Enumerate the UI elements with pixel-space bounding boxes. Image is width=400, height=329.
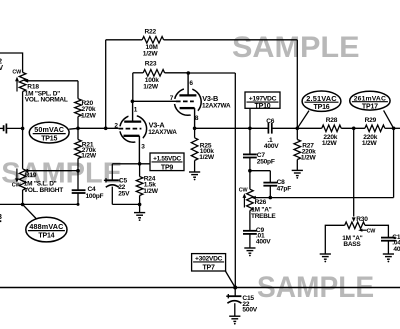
node junction R27/TP16 bbox=[296, 127, 300, 131]
V3-A plate bbox=[124, 120, 141, 122]
svg-text:TP17: TP17 bbox=[362, 104, 378, 111]
svg-text:100pF: 100pF bbox=[86, 193, 104, 200]
node junction TP9 bbox=[138, 162, 142, 166]
svg-text:C6: C6 bbox=[266, 118, 275, 125]
svg-text:R23: R23 bbox=[145, 60, 157, 67]
wire bass left to ground bbox=[325, 225, 344, 254]
svg-text:1/2W: 1/2W bbox=[143, 83, 159, 90]
svg-text:400V: 400V bbox=[264, 143, 279, 150]
wire to C8 bbox=[250, 170, 270, 172]
wire treble out up to output node bbox=[393, 128, 395, 197]
wire R21 to C4 bbox=[77, 159, 79, 171]
resistor R23 100k bbox=[132, 73, 134, 102]
R18 CW arrow bbox=[16, 80, 18, 92]
potentiometer R30 BASS bbox=[345, 222, 365, 229]
svg-text:8: 8 bbox=[195, 115, 199, 122]
left ground rail bbox=[0, 203, 78, 205]
svg-text:400V: 400V bbox=[256, 239, 271, 246]
svg-text:TP14: TP14 bbox=[38, 232, 54, 239]
node junction input bbox=[21, 127, 25, 131]
ground under C15 bbox=[229, 315, 240, 317]
wire wiper to R20 bbox=[77, 81, 79, 99]
test point box TP10 +197VDC bbox=[249, 108, 251, 128]
capacitor C15 22uF 500V bbox=[234, 288, 236, 297]
R26 CW arrow bbox=[243, 197, 245, 208]
test point TP16 oval 2.51VAC bbox=[297, 111, 309, 129]
resistor R29 220k bbox=[365, 125, 385, 132]
test point TP15 oval 50mVAC bbox=[29, 122, 69, 143]
svg-text:CW: CW bbox=[12, 70, 22, 76]
wire R18 down to vol bright pot bbox=[22, 92, 24, 129]
svg-text:V: V bbox=[0, 65, 3, 72]
wire R22 right leg down bbox=[296, 40, 298, 129]
resistor R28 220k bbox=[322, 125, 341, 132]
svg-text:6: 6 bbox=[189, 80, 193, 87]
svg-text:CW: CW bbox=[12, 183, 22, 189]
resistor R27 220k bbox=[296, 128, 298, 139]
R30 CW arrow bbox=[358, 229, 362, 232]
svg-text:TREBLE: TREBLE bbox=[251, 213, 276, 220]
node junction wiper/C4 bbox=[76, 169, 80, 173]
svg-text:TP16: TP16 bbox=[314, 104, 330, 111]
capacitor (input, clipped at edge) bbox=[0, 127, 3, 129]
capacitor C4 100pF bbox=[77, 171, 79, 190]
svg-text:1/2W: 1/2W bbox=[81, 153, 97, 160]
R30 wiper arrow bbox=[352, 217, 356, 222]
V3-A cathode bbox=[124, 135, 140, 137]
svg-text:CW: CW bbox=[367, 228, 377, 234]
svg-text:R19: R19 bbox=[25, 172, 37, 179]
resistor R21 270k bbox=[77, 128, 79, 139]
wire cathode node bbox=[112, 163, 150, 165]
svg-text:250pF: 250pF bbox=[257, 158, 275, 165]
resistor R22 10M bbox=[106, 39, 143, 41]
svg-text:7: 7 bbox=[170, 95, 174, 102]
svg-text:1/2W: 1/2W bbox=[322, 140, 338, 147]
triode V3-A circle bbox=[120, 115, 147, 142]
node junction V3-B cathode bbox=[193, 127, 197, 131]
svg-text:R22: R22 bbox=[145, 29, 157, 36]
node junction C7/C8 bbox=[248, 169, 252, 173]
svg-text:1/2W: 1/2W bbox=[362, 140, 378, 147]
wire R20 to grid node bbox=[77, 117, 79, 129]
wire bass right to C10 bbox=[365, 225, 389, 237]
node junction V3-B plate bbox=[187, 71, 191, 75]
svg-text:VOL. NORMAL: VOL. NORMAL bbox=[25, 97, 68, 104]
svg-text:1/2W: 1/2W bbox=[301, 155, 317, 162]
node junction R22 return bbox=[104, 127, 108, 131]
svg-text:1/2W: 1/2W bbox=[143, 50, 159, 57]
svg-text:1/2W: 1/2W bbox=[81, 113, 97, 120]
node junction bass wiper bbox=[352, 127, 356, 131]
capacitor C8 47pF bbox=[269, 171, 271, 183]
svg-text:TP10: TP10 bbox=[255, 103, 271, 110]
R19 wiper arrow bbox=[24, 169, 29, 173]
svg-text:1/2W: 1/2W bbox=[143, 188, 159, 195]
potentiometer R18 VOL. NORMAL bbox=[19, 72, 26, 91]
node junction C8/treble wire bbox=[269, 196, 273, 200]
test point box TP7 +302VDC bbox=[192, 254, 226, 271]
ground under R24 bbox=[139, 204, 141, 212]
svg-text:1: 1 bbox=[134, 107, 138, 114]
svg-text:1/2W: 1/2W bbox=[199, 154, 215, 161]
svg-text:500V: 500V bbox=[242, 307, 257, 314]
resistor R25 100k bbox=[191, 138, 198, 161]
test point TP17 oval 261mVAC bbox=[384, 110, 394, 128]
svg-text:12AX7WA: 12AX7WA bbox=[148, 129, 177, 136]
svg-text:25V: 25V bbox=[118, 190, 130, 197]
capacitor C10 (clipped at edge) bbox=[381, 237, 396, 239]
wire C6 to R28 node bbox=[272, 127, 322, 129]
ground under C10 bbox=[383, 253, 394, 255]
V3-A cathode lead pin 3 bbox=[138, 136, 140, 164]
svg-text:R29: R29 bbox=[365, 117, 377, 124]
node junction V3-A plate bbox=[131, 100, 135, 104]
capacitor C6 .1 400V bbox=[267, 123, 269, 134]
svg-text:TP7: TP7 bbox=[202, 265, 215, 272]
capacitor C7 250pF bbox=[249, 128, 251, 154]
wire R22 left leg bbox=[105, 40, 107, 129]
V3-B plate lead pin 6 bbox=[187, 73, 189, 95]
svg-text:CW: CW bbox=[239, 187, 249, 193]
svg-text:3: 3 bbox=[0, 212, 2, 221]
ground bass left bbox=[320, 253, 331, 255]
svg-text:SAMPLE: SAMPLE bbox=[232, 32, 360, 64]
ground under C9 bbox=[244, 247, 255, 249]
svg-text:12AX7WA: 12AX7WA bbox=[202, 103, 231, 110]
svg-text:R26: R26 bbox=[255, 199, 267, 206]
B+ supply rail bbox=[0, 287, 400, 289]
V3-B cathode lead pin 8 bbox=[194, 108, 196, 128]
R18 wiper arrow to R20 bbox=[24, 79, 29, 83]
V3-B cathode bbox=[180, 107, 195, 109]
capacitor C9 .01 400V bbox=[243, 230, 257, 232]
wire R28-R29 bbox=[341, 127, 365, 129]
svg-text:TP9: TP9 bbox=[161, 165, 174, 172]
R26 wiper arrow bbox=[251, 196, 256, 200]
wire plate node to B+ drop bbox=[188, 72, 235, 74]
grid wire to V3-A bbox=[69, 127, 78, 130]
ground under R25 bbox=[189, 171, 200, 173]
node junction TP10/C7 bbox=[248, 127, 252, 131]
triode V3-B circle bbox=[174, 89, 201, 116]
svg-text:400V: 400V bbox=[393, 246, 400, 253]
svg-text:3: 3 bbox=[141, 144, 145, 151]
node junction output bbox=[392, 127, 396, 131]
resistor R24 1.5k bbox=[139, 164, 141, 177]
right ground rail bbox=[112, 203, 139, 205]
svg-text:+197VDC: +197VDC bbox=[249, 96, 277, 103]
test point TP14 oval 488mVAC bbox=[23, 204, 38, 220]
wire cathode node to C6 bbox=[195, 127, 268, 129]
capacitor C5 22uF bypass bbox=[111, 164, 113, 180]
svg-text:C4: C4 bbox=[88, 186, 97, 193]
V3-B plate bbox=[179, 94, 196, 96]
wire bass wiper down bbox=[353, 128, 355, 216]
svg-text:488mVAC: 488mVAC bbox=[29, 222, 63, 231]
potentiometer R26 TREBLE bbox=[249, 171, 251, 190]
node junction R24 ground bbox=[138, 203, 142, 207]
node junction R20/R21 bbox=[76, 127, 80, 131]
svg-text:TP15: TP15 bbox=[41, 135, 57, 142]
V3-B grid (dashed) bbox=[176, 100, 194, 102]
svg-text:50mVAC: 50mVAC bbox=[34, 125, 64, 134]
wire pot to ground rail bbox=[22, 190, 24, 204]
svg-text:BASS: BASS bbox=[343, 241, 361, 248]
wire top-left corner to pot bbox=[0, 53, 23, 72]
svg-text:VOL. BRIGHT: VOL. BRIGHT bbox=[24, 187, 63, 194]
test point box TP9 +1.55VDC bbox=[150, 153, 184, 171]
svg-text:2.51VAC: 2.51VAC bbox=[306, 94, 337, 103]
wire R29 to right edge bbox=[385, 127, 400, 129]
V3-B grid lead pin 7 wire from V3-A plate bbox=[133, 100, 177, 102]
resistor R20 270k bbox=[75, 99, 82, 117]
svg-text:47pF: 47pF bbox=[277, 186, 292, 193]
V3-A grid (dashed) bbox=[119, 128, 142, 130]
V3-A plate lead pin 1 bbox=[132, 101, 134, 121]
svg-text:R28: R28 bbox=[326, 117, 338, 124]
potentiometer R19 VOL. BRIGHT bbox=[19, 169, 26, 190]
node junction C15 bbox=[233, 286, 237, 290]
R19 CW arrow bbox=[16, 169, 18, 180]
ground under R27 bbox=[292, 169, 303, 171]
